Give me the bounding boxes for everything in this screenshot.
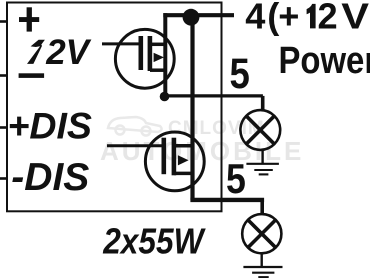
digit 1 of +12V [307, 4, 316, 29]
ground G1 [246, 164, 279, 175]
pin stub +DIS [0, 126, 7, 129]
svg-text:-DIS: -DIS [11, 156, 89, 199]
wire: +12V feed top (to pin 4) [163, 13, 234, 17]
pin stub -DIS [0, 177, 7, 180]
svg-text:4(+: 4(+ [245, 0, 299, 36]
svg-text:2x55W: 2x55W [102, 222, 206, 262]
svg-text:+DIS: +DIS [8, 104, 92, 146]
svg-text:5: 5 [230, 50, 250, 97]
label pin 4 (+12V) [245, 0, 369, 37]
wire: drop to lamp 2 [260, 200, 264, 214]
lamp L2 [242, 214, 281, 253]
wire: lamp 1 to ground [261, 151, 263, 164]
label plus sign [19, 7, 39, 31]
label minus dash [19, 73, 44, 78]
transistor Q2 (lower MOSFET) [107, 132, 204, 191]
node: source junction dot [160, 92, 170, 102]
pin stub + (12V plus) [0, 20, 7, 23]
digit 1 of 12V [27, 40, 45, 64]
wire: upper MOSFET drain/source vertical [163, 13, 167, 96]
svg-text:V: V [341, 0, 369, 37]
node: supply junction dot [183, 9, 200, 26]
pin stub minus [0, 74, 7, 77]
svg-text:Power: Power [279, 39, 370, 82]
svg-text:2V: 2V [45, 33, 91, 72]
ground G2 [243, 267, 282, 277]
wire: drop to lamp 1 [261, 96, 265, 110]
svg-text:2: 2 [318, 0, 338, 36]
control unit U1 box outline [7, 3, 222, 212]
wire: upper source to lamp 1 [165, 94, 263, 97]
wire: junction down to lower MOSFET drain [190, 17, 194, 200]
watermark car icon [108, 117, 162, 136]
lamp L1 [240, 110, 280, 150]
wire: lower source to lamp 2 [190, 198, 264, 202]
wire: lamp 2 to ground [261, 254, 263, 267]
transistor Q1 (upper MOSFET) [102, 29, 174, 88]
label 12V [27, 33, 92, 72]
svg-text:5: 5 [226, 156, 246, 202]
